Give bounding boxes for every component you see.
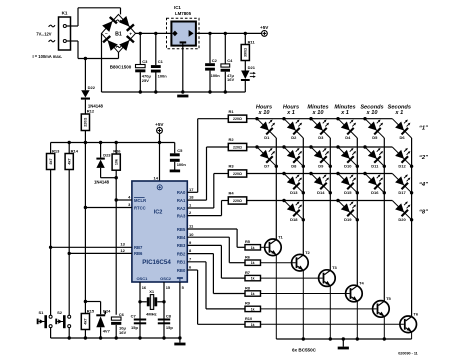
svg-text:220Ω: 220Ω <box>233 117 242 121</box>
capacitor C6 <box>111 317 121 320</box>
node emitter rail junction <box>383 337 386 340</box>
svg-text:x 1: x 1 <box>340 110 349 116</box>
svg-text:D8: D8 <box>291 163 297 168</box>
svg-text:10k: 10k <box>114 158 118 165</box>
svg-text:RB6: RB6 <box>134 251 143 256</box>
svg-text:I = 100mA max.: I = 100mA max. <box>33 54 63 59</box>
svg-text:C7: C7 <box>131 313 137 318</box>
resistor R1 <box>198 118 229 120</box>
wire main +rail <box>136 32 172 34</box>
svg-text:D7: D7 <box>264 163 270 168</box>
wire K1 top terminal <box>67 25 79 27</box>
svg-text:4k7: 4k7 <box>67 158 71 164</box>
wire RB7 pin 13 <box>51 246 132 248</box>
LED D16 <box>362 166 392 196</box>
wire pin5 ground <box>179 282 181 338</box>
wire RB3 pin 9 <box>187 244 221 246</box>
LED D17 <box>389 166 419 196</box>
switch S2 <box>68 315 71 318</box>
svg-text:D22: D22 <box>88 85 96 90</box>
wire RA1 pin 18 <box>187 199 206 201</box>
svg-text:D13: D13 <box>290 190 298 195</box>
resistor R3 <box>214 173 229 175</box>
svg-text:x 1: x 1 <box>394 110 403 116</box>
svg-text:D19: D19 <box>344 217 352 222</box>
svg-text:R5: R5 <box>245 239 251 244</box>
svg-text:C5: C5 <box>177 148 183 153</box>
wire top rail from K1 to bridge <box>78 7 121 9</box>
svg-text:RB1: RB1 <box>177 260 186 265</box>
LED D21 <box>244 61 246 71</box>
supply node +5V logic <box>157 128 163 134</box>
resistor R13 <box>50 143 52 154</box>
resistor R16 <box>115 141 118 144</box>
capacitor C1 <box>155 33 157 65</box>
wire RB6 pin 12 <box>69 252 132 254</box>
wire RA3 pin 2 <box>187 215 221 217</box>
wire matrix row 4 <box>247 173 284 175</box>
svg-text:“1”: “1” <box>419 125 428 131</box>
svg-text:D15: D15 <box>344 190 352 195</box>
svg-text:T5: T5 <box>386 296 391 301</box>
node S2 gnd <box>68 336 71 339</box>
resistor R8 <box>245 291 261 296</box>
LED D15 <box>335 166 365 196</box>
wire column 4 vertical <box>356 138 358 286</box>
svg-text:R3: R3 <box>229 164 235 169</box>
svg-text:1k: 1k <box>251 307 255 311</box>
bridge diode top-left <box>102 21 112 32</box>
svg-text:16V: 16V <box>227 77 234 82</box>
svg-text:15p: 15p <box>131 325 138 330</box>
svg-text:MCLR: MCLR <box>134 198 146 203</box>
svg-text:25V: 25V <box>142 78 149 83</box>
bridge rectifier B1 outline <box>102 14 136 52</box>
svg-text:R12: R12 <box>87 108 95 113</box>
svg-text:100n: 100n <box>158 73 168 78</box>
svg-text:18: 18 <box>189 195 194 200</box>
svg-text:PIC16C54: PIC16C54 <box>142 259 171 266</box>
svg-text:4k7: 4k7 <box>49 158 53 164</box>
crystal X1 <box>140 301 147 303</box>
capacitor C3 <box>139 33 141 64</box>
svg-text:1k: 1k <box>251 323 255 327</box>
wire distribution line <box>51 142 175 144</box>
LED D10 <box>335 140 365 170</box>
svg-text:17: 17 <box>189 187 194 192</box>
svg-text:100n: 100n <box>211 73 221 78</box>
microcontroller IC2 PIC16C54 <box>132 181 187 282</box>
svg-text:4V7: 4V7 <box>103 329 111 334</box>
svg-text:D4: D4 <box>345 135 351 140</box>
wire matrix row 8 <box>247 200 284 202</box>
svg-text:D12: D12 <box>398 163 406 168</box>
connector K1 <box>59 17 71 50</box>
ground symbol logic <box>179 338 181 343</box>
wire left ground rail <box>51 337 180 339</box>
svg-text:C1: C1 <box>158 59 164 64</box>
wire matrix row 2 <box>247 146 393 148</box>
svg-text:IC1: IC1 <box>174 5 181 10</box>
node emitter rail junction <box>356 337 359 340</box>
wire OSC1 column <box>139 282 141 338</box>
wire K1 bottom terminal <box>67 40 79 42</box>
svg-text:LM7805: LM7805 <box>175 11 192 16</box>
wire column 6 vertical <box>411 138 413 316</box>
svg-text:D1: D1 <box>264 135 270 140</box>
svg-text:x 10: x 10 <box>258 110 271 116</box>
svg-text:T3: T3 <box>332 265 337 270</box>
resistor R11 <box>244 33 246 44</box>
svg-text:C2: C2 <box>212 58 218 63</box>
node C3 gnd <box>139 90 142 93</box>
switch S1 <box>49 315 52 318</box>
svg-text:RB3: RB3 <box>177 243 186 248</box>
svg-text:1k: 1k <box>251 277 255 281</box>
svg-text:B1: B1 <box>115 31 122 37</box>
transistor T1 <box>265 239 282 256</box>
wire matrix row 1 <box>247 118 393 120</box>
diode D22 <box>84 59 86 91</box>
wire RB5 pin 11 <box>187 228 237 230</box>
node emitter rail junction <box>302 337 305 340</box>
wire RA0 pin 17 <box>187 191 197 193</box>
LED D1 <box>254 111 284 141</box>
svg-text:−: − <box>105 32 108 37</box>
svg-text:D11: D11 <box>371 163 379 168</box>
node emitter rail junction <box>329 337 332 340</box>
LED D2 <box>281 111 311 141</box>
wire RB4 pin 10 <box>187 236 229 238</box>
LED D12 <box>389 140 419 170</box>
svg-text:D14: D14 <box>317 190 325 195</box>
svg-text:C8: C8 <box>166 313 172 318</box>
LED D9 <box>308 140 338 170</box>
supply node +5V main <box>262 31 268 37</box>
svg-text:OSC1: OSC1 <box>136 276 148 281</box>
svg-text:C4: C4 <box>227 58 233 63</box>
resistor R9 <box>245 306 261 311</box>
svg-text:D2: D2 <box>291 135 297 140</box>
svg-text:R7: R7 <box>245 270 250 275</box>
ground symbol C5 <box>170 170 180 173</box>
wire column 3 vertical <box>329 138 331 270</box>
ground symbol transistor rail <box>342 339 344 347</box>
svg-text:13: 13 <box>120 242 125 247</box>
voltage regulator IC1 dashed outline <box>167 18 200 49</box>
resistor R6 <box>245 260 261 265</box>
svg-text:OSC2: OSC2 <box>160 276 172 281</box>
svg-text:+5V: +5V <box>155 122 164 127</box>
capacitor C5 <box>174 143 176 154</box>
svg-text:R6: R6 <box>245 255 251 260</box>
svg-text:220Ω: 220Ω <box>233 145 242 149</box>
wire MCLR pin 4 <box>116 199 132 201</box>
transistor T5 <box>373 301 390 318</box>
svg-text:RB7: RB7 <box>134 245 143 250</box>
svg-text:D17: D17 <box>398 190 406 195</box>
LED D19 <box>335 193 365 223</box>
bridge diode bottom-right <box>119 40 129 51</box>
svg-text:D6: D6 <box>400 135 406 140</box>
svg-text:1k: 1k <box>251 292 255 296</box>
wire ground rail <box>102 91 246 93</box>
svg-text:D10: D10 <box>344 163 352 168</box>
svg-text:+: + <box>129 32 132 37</box>
svg-text:RB4: RB4 <box>177 235 186 240</box>
capacitor C8 <box>158 319 170 321</box>
svg-text:D3: D3 <box>318 135 324 140</box>
svg-text:D9: D9 <box>318 163 324 168</box>
svg-text:RB5: RB5 <box>177 227 186 232</box>
resistor R14 <box>68 141 71 144</box>
svg-text:R14: R14 <box>71 148 79 153</box>
wire RB1 pin 7 <box>187 261 206 263</box>
svg-text:x 10: x 10 <box>366 110 379 116</box>
svg-text:S1: S1 <box>39 310 45 315</box>
wire RTCC pin 3 <box>85 207 131 209</box>
svg-text:T4: T4 <box>359 281 364 286</box>
wire column 5 vertical <box>383 138 385 301</box>
svg-text:S2: S2 <box>57 310 63 315</box>
svg-text:D5: D5 <box>372 135 378 140</box>
bridge diode bottom-left <box>108 40 118 51</box>
wire pin14 supply <box>159 143 161 182</box>
resistor R10 <box>245 322 261 327</box>
svg-text:RA3: RA3 <box>177 213 186 218</box>
svg-text:020090 - 11: 020090 - 11 <box>398 351 417 355</box>
node R12 distribution <box>84 141 87 144</box>
svg-text:RA0: RA0 <box>177 190 186 195</box>
svg-text:RTCC: RTCC <box>134 205 146 210</box>
svg-text:6x BC550C: 6x BC550C <box>292 347 317 352</box>
wire bridge minus to ground rail <box>101 33 103 92</box>
svg-text:RA2: RA2 <box>177 206 186 211</box>
LED D5 <box>362 111 392 141</box>
svg-text:220Ω: 220Ω <box>233 172 242 176</box>
LED D14 <box>308 166 338 196</box>
resistor R4 <box>222 200 229 202</box>
svg-text:T2: T2 <box>305 250 310 255</box>
svg-text:D24: D24 <box>103 309 111 314</box>
svg-text:+5V: +5V <box>260 25 269 30</box>
svg-text:16V: 16V <box>119 330 126 335</box>
svg-text:RB2: RB2 <box>177 251 186 256</box>
resistor R5 <box>245 245 261 250</box>
node C1 gnd <box>154 90 157 93</box>
ground symbol main rail <box>177 95 188 98</box>
svg-text:x 10: x 10 <box>312 110 325 116</box>
svg-text:7V...12V: 7V...12V <box>36 31 52 36</box>
svg-text:R1: R1 <box>229 109 235 114</box>
svg-text:T1: T1 <box>278 234 283 239</box>
svg-text:K1: K1 <box>62 10 68 15</box>
svg-text:x 1: x 1 <box>286 110 295 116</box>
LED D20 <box>389 193 419 223</box>
wire RA2 pin 1 <box>187 207 214 209</box>
svg-text:R4: R4 <box>229 191 235 196</box>
wire emitter ground rail <box>276 338 411 340</box>
transistor T3 <box>319 270 336 287</box>
transistor T4 <box>346 285 363 302</box>
svg-text:R2: R2 <box>229 137 235 142</box>
svg-text:R10: R10 <box>245 316 252 321</box>
svg-text:“8”: “8” <box>419 209 428 215</box>
node junction D22 tap <box>84 57 87 60</box>
svg-text:B80C1500: B80C1500 <box>110 65 132 70</box>
svg-text:4k7: 4k7 <box>84 318 88 324</box>
svg-text:R13: R13 <box>52 148 60 153</box>
transistor T2 <box>292 254 309 271</box>
svg-text:RB0: RB0 <box>177 268 186 273</box>
svg-text:220Ω: 220Ω <box>84 118 88 127</box>
svg-text:R15: R15 <box>87 308 95 313</box>
wire column 2 vertical <box>302 138 304 255</box>
svg-text:D16: D16 <box>371 190 379 195</box>
svg-text:4MHz: 4MHz <box>146 311 156 316</box>
svg-text:D23: D23 <box>103 153 111 158</box>
svg-text:D18: D18 <box>290 217 298 222</box>
svg-text:100n: 100n <box>177 162 187 167</box>
svg-text:RA1: RA1 <box>177 198 186 203</box>
svg-text:IC2: IC2 <box>154 210 163 216</box>
svg-text:D20: D20 <box>398 217 406 222</box>
svg-text:14: 14 <box>154 175 159 180</box>
LED D4 <box>335 111 365 141</box>
zener diode D24 <box>100 302 102 315</box>
svg-text:10: 10 <box>189 232 194 237</box>
wire OSC2 column <box>163 282 165 338</box>
capacitor C7 <box>134 319 146 321</box>
svg-text:12: 12 <box>120 248 125 253</box>
LED D7 <box>254 140 284 170</box>
svg-text:220Ω: 220Ω <box>233 199 242 203</box>
svg-text:1N4148: 1N4148 <box>94 180 110 185</box>
LED D13 <box>281 166 311 196</box>
wire RB0 pin 6 <box>187 269 197 271</box>
capacitor C4 <box>224 33 226 64</box>
resistor R12 <box>81 114 89 131</box>
voltage regulator IC1 LM7805 <box>171 22 196 46</box>
resistor R15 <box>84 300 87 303</box>
wire IC1 ground pin <box>182 46 184 92</box>
svg-text:X1: X1 <box>149 289 155 294</box>
svg-text:C6: C6 <box>119 312 125 317</box>
LED D18 <box>281 193 311 223</box>
svg-text:R11: R11 <box>248 39 256 44</box>
bridge diode top-right <box>119 16 129 27</box>
wire RB2 pin 8 <box>187 253 213 255</box>
resistor R2 <box>207 146 229 148</box>
svg-text:“2”: “2” <box>419 155 428 161</box>
svg-text:R9: R9 <box>245 301 251 306</box>
node RTCC junction <box>84 206 87 209</box>
LED D8 <box>281 140 311 170</box>
wire R12 to RTCC <box>84 131 86 302</box>
svg-text:1k: 1k <box>251 261 255 265</box>
svg-text:R16: R16 <box>113 149 121 154</box>
svg-text:C3: C3 <box>142 59 148 64</box>
svg-text:T6: T6 <box>413 311 418 316</box>
svg-text:“4”: “4” <box>419 182 428 188</box>
svg-text:D21: D21 <box>248 65 256 70</box>
resistor R7 <box>245 275 261 280</box>
svg-text:15p: 15p <box>166 325 173 330</box>
svg-text:390Ω: 390Ω <box>244 48 248 57</box>
LED D3 <box>308 111 338 141</box>
capacitor C2 <box>209 33 211 63</box>
transistor T6 <box>400 316 417 333</box>
LED D11 <box>362 140 392 170</box>
LED D6 <box>389 111 419 141</box>
diode D23 <box>99 141 102 144</box>
wire column 1 vertical <box>275 138 277 239</box>
svg-text:1k: 1k <box>251 246 255 250</box>
svg-text:R8: R8 <box>245 285 251 290</box>
